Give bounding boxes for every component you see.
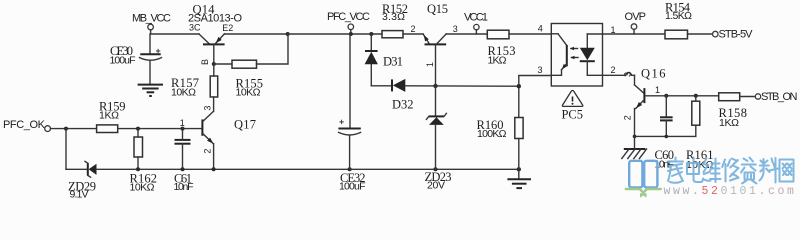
wire opto pin3 to R160 column <box>519 76 552 118</box>
LED inside PC5 <box>587 33 602 35</box>
node junction left column <box>64 127 68 131</box>
transistor Q17 <box>202 106 256 170</box>
svg-text:MB_VCC: MB_VCC <box>132 13 171 25</box>
svg-text:PFC_VCC: PFC_VCC <box>327 11 370 23</box>
op-amp: none; optocoupler PC5 <box>551 24 602 87</box>
node MB_VCC <box>132 13 171 34</box>
svg-text:2: 2 <box>202 149 212 154</box>
svg-text:3C: 3C <box>189 23 201 33</box>
svg-text:9.1V: 9.1V <box>70 189 89 200</box>
svg-text:10KΩ: 10KΩ <box>130 182 155 194</box>
transistor Q15 <box>423 2 448 86</box>
svg-text:2: 2 <box>611 65 616 75</box>
wire Q14 emitter to junction <box>224 33 287 35</box>
zener ZD29 9.1V <box>66 161 97 200</box>
resistor R152 3.3ohm <box>382 2 423 38</box>
svg-text:PFC_OK: PFC_OK <box>3 119 46 131</box>
wire R155 to top wire <box>257 34 289 64</box>
svg-text:Q15: Q15 <box>427 2 448 16</box>
wire R154 to STB-5V <box>688 33 713 35</box>
resistor R159 <box>97 100 126 133</box>
node junction R162 top <box>136 127 140 131</box>
svg-text:3.3Ω: 3.3Ω <box>382 11 405 23</box>
wire top to PFC_VCC <box>288 33 382 35</box>
svg-text:100uF: 100uF <box>339 181 366 193</box>
phototransistor inside PC5 <box>551 33 558 35</box>
svg-text:10KΩ: 10KΩ <box>171 86 196 98</box>
wire Q16 emitter mini rail <box>633 135 696 149</box>
watermark book icon <box>629 161 657 188</box>
node STB-5V <box>713 29 754 41</box>
wire D31 to D32 <box>371 85 392 87</box>
svg-text:STB_ON: STB_ON <box>761 91 798 103</box>
wire left column down <box>65 129 67 170</box>
zener ZD23 20V <box>425 113 452 191</box>
node STB_ON <box>755 91 797 103</box>
svg-text:1KΩ: 1KΩ <box>488 54 507 66</box>
wire bottom rail <box>97 168 519 170</box>
wire base junction to R155 <box>214 63 232 65</box>
resistor R160 <box>477 118 524 170</box>
svg-text:Q17: Q17 <box>234 117 256 131</box>
ground hatched under Q16 <box>622 149 647 159</box>
svg-text:1: 1 <box>425 62 435 67</box>
svg-text:D31: D31 <box>383 54 403 68</box>
wire Q15 base column to ZD23 <box>435 86 437 117</box>
svg-text:3: 3 <box>538 65 543 75</box>
resistor R155 <box>232 60 263 98</box>
svg-text:Q16: Q16 <box>641 67 666 81</box>
svg-text:PC5: PC5 <box>562 108 584 122</box>
svg-text:VCC1: VCC1 <box>464 11 488 23</box>
node junction R155 top <box>286 32 290 36</box>
svg-text:3: 3 <box>623 72 633 77</box>
photon arrows <box>571 48 578 50</box>
wire opto pin2 to Q16 collector <box>603 73 635 85</box>
node rail junction dots <box>136 167 521 171</box>
svg-text:D32: D32 <box>392 98 414 112</box>
svg-text:1: 1 <box>180 118 185 128</box>
resistor R162 <box>130 129 158 194</box>
wire R158 to STB_ON <box>740 96 756 98</box>
svg-text:4: 4 <box>538 24 543 34</box>
node VCC1 <box>464 11 488 34</box>
wire opto pin1 to R154 <box>603 33 666 35</box>
node junction C61 top <box>181 127 185 131</box>
wire PFC_OK to R159 <box>51 128 97 130</box>
node junction Q15 base / D32 <box>433 84 437 88</box>
wire R153 to optocoupler pin4 <box>509 33 551 35</box>
svg-text:3: 3 <box>202 106 212 111</box>
diode D31 <box>365 34 403 86</box>
svg-text:100KΩ: 100KΩ <box>477 128 507 140</box>
warning triangle PC5 <box>562 90 584 121</box>
node OVP <box>625 11 647 34</box>
node PFC_VCC <box>327 11 370 36</box>
transistor Q14 2SA1013 <box>188 3 242 65</box>
svg-text:1: 1 <box>655 85 660 95</box>
capacitor CE32 <box>338 120 365 193</box>
resistor R154 <box>665 0 692 39</box>
node junction Q14 base <box>212 62 216 66</box>
svg-text:10KΩ: 10KΩ <box>236 86 261 98</box>
svg-text:1.5KΩ: 1.5KΩ <box>665 10 692 22</box>
svg-text:100uF: 100uF <box>110 55 136 67</box>
watermark book base <box>626 189 661 198</box>
transistor Q16 <box>623 67 719 137</box>
svg-text:E2: E2 <box>222 23 233 33</box>
watermark chinese text (stylized strokes) <box>668 158 794 184</box>
capacitor C61 <box>174 129 194 193</box>
node junction D32 line / R160 column <box>517 84 521 88</box>
svg-text:STB-5V: STB-5V <box>719 29 754 41</box>
svg-text:20V: 20V <box>427 179 445 191</box>
svg-text:2: 2 <box>411 24 416 34</box>
svg-text:10nF: 10nF <box>174 181 194 193</box>
svg-text:www.520101.com: www.520101.com <box>664 185 797 198</box>
resistor R158 <box>719 93 748 129</box>
svg-text:3: 3 <box>453 24 458 34</box>
svg-text:OVP: OVP <box>625 11 647 23</box>
wire Q15 collector to R153 <box>446 33 487 35</box>
svg-text:1KΩ: 1KΩ <box>719 117 739 129</box>
diode D32 <box>392 79 519 112</box>
node PFC_OK <box>3 119 50 132</box>
wire CE30 branch <box>149 34 151 54</box>
resistor R157 <box>171 64 218 111</box>
wire CE32 branch <box>349 34 351 129</box>
wire R159 to Q17 base <box>118 128 202 130</box>
node junction D31 top <box>369 32 373 36</box>
svg-text:1KΩ: 1KΩ <box>99 110 119 122</box>
ground under R160 <box>507 169 531 188</box>
svg-text:2: 2 <box>623 115 633 120</box>
resistor R153 <box>487 30 515 66</box>
capacitor CE30 <box>110 44 162 84</box>
resistor R161 <box>686 94 714 171</box>
ground under CE30 <box>138 85 163 96</box>
capacitor C60 <box>655 94 675 171</box>
svg-text:B: B <box>200 59 210 65</box>
wire MB_VCC to Q14 emitter <box>151 33 199 35</box>
